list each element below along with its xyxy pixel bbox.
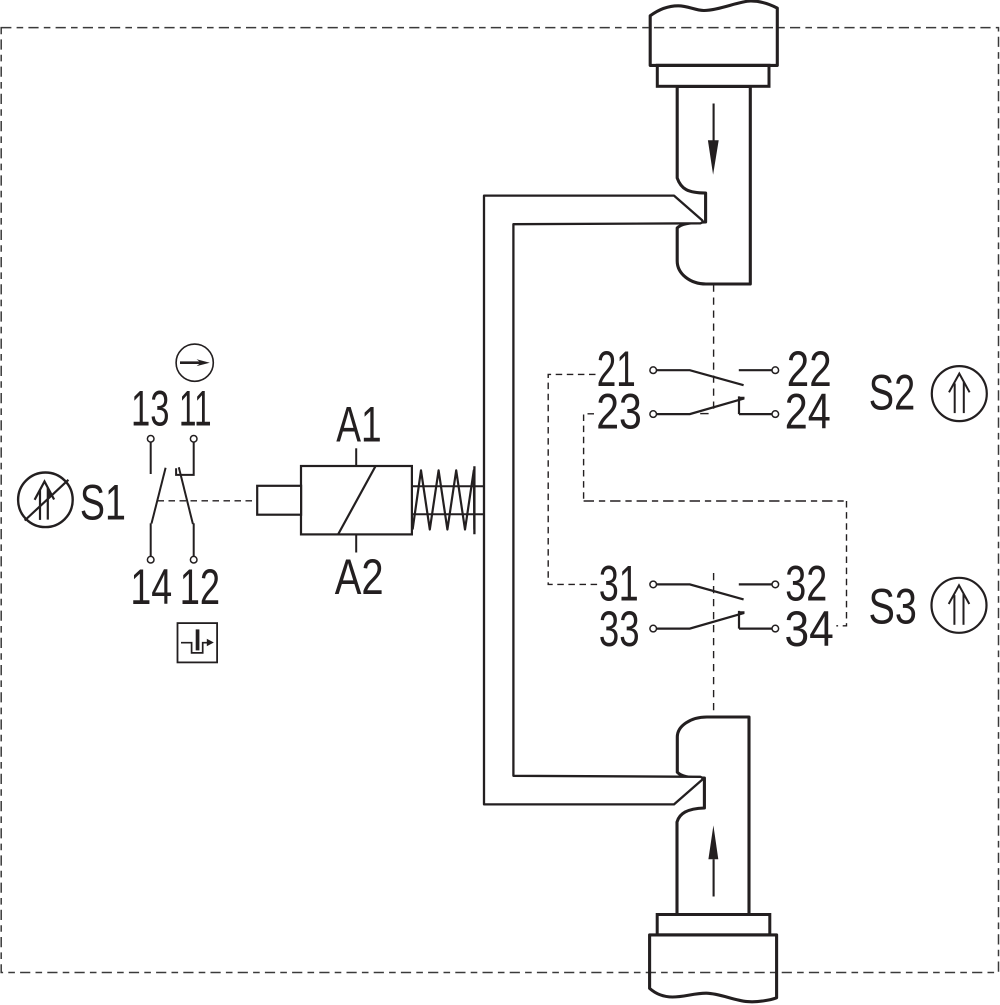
svg-text:24: 24 (785, 383, 831, 439)
terminal 31 (650, 581, 657, 588)
svg-text:S1: S1 (80, 475, 126, 531)
contact 13-14 moving arm (NO) (152, 468, 166, 524)
svg-text:13: 13 (131, 381, 170, 437)
terminal 24 (772, 411, 779, 418)
svg-text:A2: A2 (335, 549, 384, 605)
contact 33-34 seat with tick (739, 611, 745, 629)
dashed mechanical centre line: 31-34 to bottom actuator (713, 573, 715, 717)
svg-text:S3: S3 (869, 579, 917, 635)
spring end plate (473, 466, 475, 534)
solenoid diagonal (338, 466, 376, 534)
locking bracket / bolt frame (484, 196, 702, 805)
contact 11-12 moving arm (NC) (179, 467, 193, 524)
actuator tongue top: collar (657, 65, 769, 86)
terminal 13 (147, 436, 154, 443)
solenoid coil body (301, 466, 412, 534)
S3 circle icon: double arrow up (932, 578, 987, 633)
terminal 14 (147, 556, 154, 563)
contact 22 stub (739, 369, 772, 371)
terminal 33 (650, 625, 657, 632)
pin A2 (355, 534, 357, 552)
terminal 21 (650, 367, 657, 374)
actuator tongue top: handle with torn-off wavy top (650, 1, 777, 65)
plunger rod to bracket (412, 485, 484, 487)
contact 23-24 moving arm (NC) (657, 398, 745, 414)
arrow up inside bottom shaft (708, 825, 718, 859)
dashed mechanical link S1 contacts to plunger (158, 500, 258, 502)
plunger-actuation square icon (178, 623, 218, 662)
actuator tongue bottom: collar (657, 915, 770, 935)
terminal 32 (772, 581, 779, 588)
contact 32 stub (739, 583, 772, 585)
svg-text:11: 11 (179, 381, 212, 437)
actuator tongue bottom: handle with torn-off wavy bottom (650, 935, 777, 1002)
terminal 34 (772, 625, 779, 632)
pin A1 (355, 448, 357, 466)
svg-text:S2: S2 (869, 365, 915, 421)
spring (zigzag) (413, 470, 475, 529)
arrow down inside top shaft (713, 104, 715, 142)
actuator tongue top: shaft (677, 87, 750, 285)
S2 circle icon: double arrow up (932, 366, 987, 421)
contact 11-12 lower fixed line (193, 523, 195, 556)
svg-text:A1: A1 (336, 396, 381, 452)
terminal 23 (650, 411, 657, 418)
terminal 11 (190, 436, 197, 443)
svg-text:12: 12 (180, 559, 220, 615)
contact 31-32 moving arm (NO) (657, 584, 744, 599)
S1 circle icon: crossed double-arrow (cannot be unlocked) (18, 473, 73, 528)
contact 33-34 moving arm (NC) (657, 613, 745, 629)
dashed stub at 23-24 arm (700, 413, 708, 415)
terminal 12 (190, 556, 197, 563)
contact 23-24 seat with tick (739, 396, 745, 414)
terminal 22 (772, 367, 779, 374)
contact 11-12 seat (NC) (176, 442, 194, 475)
contact 13-14 fixed lines (150, 442, 152, 474)
contact 24 line (739, 413, 772, 415)
contact 21-22 moving arm (NO) (657, 370, 744, 385)
dashed mechanical centre line: top actuator to 23-24 (713, 285, 715, 415)
svg-text:34: 34 (785, 601, 834, 657)
rotary-actuation circle icon with right arrow (176, 344, 213, 381)
svg-text:33: 33 (599, 601, 640, 657)
svg-text:23: 23 (596, 383, 642, 439)
actuator tongue bottom: shaft (677, 717, 749, 915)
dashed linkage wire: contacts 21 to 31 (548, 374, 598, 584)
dashed linkage wire: contact 23 to contact 34 (584, 414, 594, 501)
solenoid plunger end (257, 486, 301, 515)
contact 34 line (739, 627, 772, 629)
svg-text:14: 14 (130, 559, 172, 615)
